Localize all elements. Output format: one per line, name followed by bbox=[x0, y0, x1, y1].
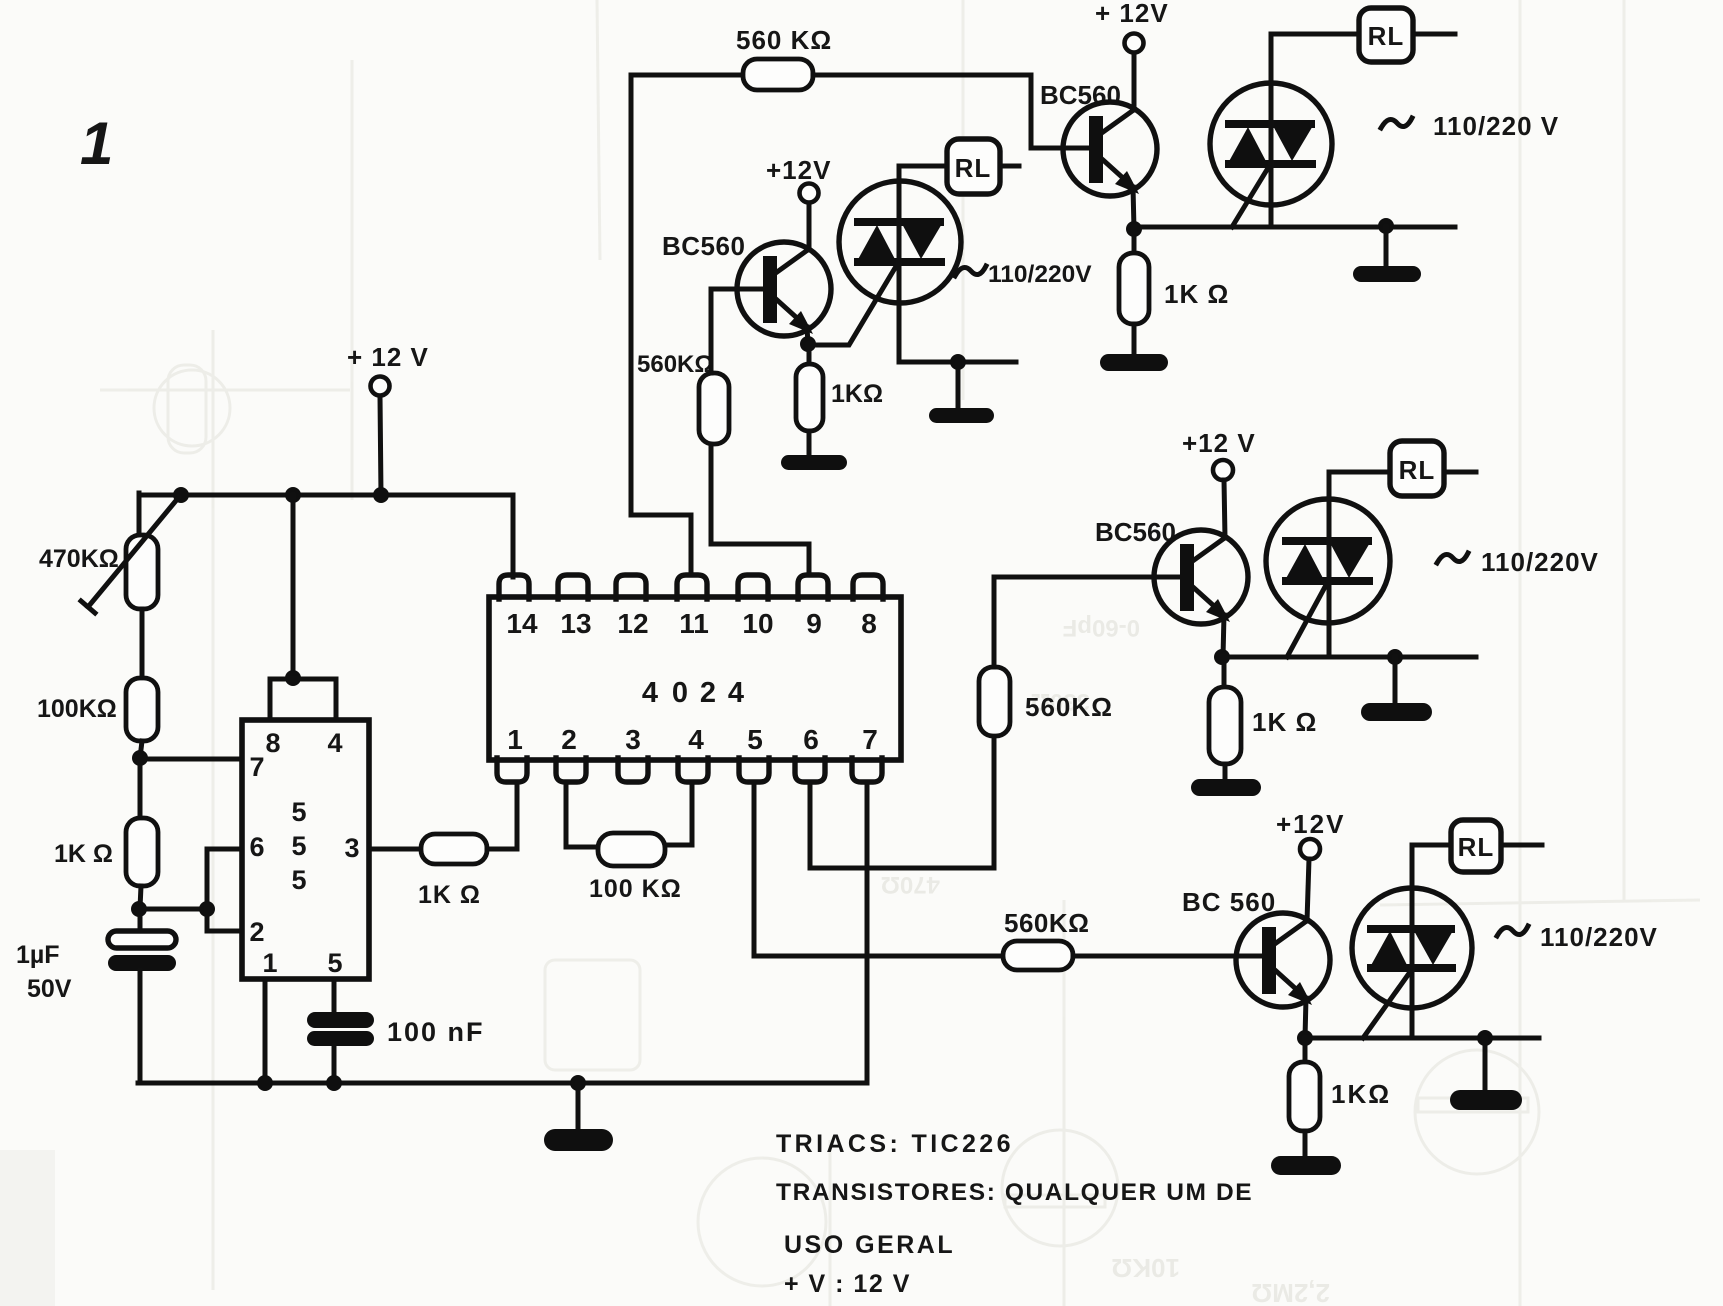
svg-text:4: 4 bbox=[728, 677, 744, 709]
wire triac T1 MT1 run bbox=[899, 360, 1016, 365]
ground (stage 2 emitter) bbox=[1100, 354, 1168, 371]
wire triac T3 gate bbox=[1287, 585, 1326, 657]
label ~ 110/220V (stage 2) bbox=[1381, 118, 1412, 128]
svg-text:2: 2 bbox=[249, 917, 264, 947]
wire Q1 collector to +12V bbox=[807, 203, 812, 250]
wire RL right lead (stage 1) bbox=[1000, 164, 1019, 169]
resistor R 1KΩ (stage 1) bbox=[796, 364, 823, 431]
svg-text:2,2MΩ: 2,2MΩ bbox=[1251, 1278, 1330, 1306]
node E dot bbox=[131, 901, 147, 917]
svg-text:3: 3 bbox=[344, 833, 359, 863]
node G dot (555 pins 8-4 tie) bbox=[285, 670, 301, 686]
wire Q1 emitter to node H bbox=[807, 327, 808, 344]
svg-text:10KΩ: 10KΩ bbox=[1111, 1253, 1180, 1283]
wire RL right lead (stage 3) bbox=[1444, 470, 1476, 475]
wire 555 pin 5 to 100nF bbox=[332, 979, 337, 1013]
svg-text:100 KΩ: 100 KΩ bbox=[589, 875, 682, 903]
wire rail to potentiometer top bbox=[137, 493, 142, 537]
label ~ 110/220V (stage 4) bbox=[1497, 926, 1528, 936]
node O dot (T4 ground) bbox=[1477, 1030, 1493, 1046]
svg-text:1K Ω: 1K Ω bbox=[1164, 279, 1229, 309]
svg-text:110/220V: 110/220V bbox=[988, 261, 1092, 288]
node rail dot A bbox=[173, 487, 189, 503]
svg-text:4: 4 bbox=[688, 724, 704, 755]
wire ground stem (T4) bbox=[1483, 1038, 1488, 1092]
triac T4 bbox=[1352, 888, 1472, 1008]
wire RL right lead (stage 2) bbox=[1413, 32, 1455, 37]
wire Q3 emitter to node L bbox=[1223, 615, 1224, 657]
ground (stage 1 emitter) bbox=[781, 455, 847, 470]
relay RL (stage 4) bbox=[1451, 820, 1501, 872]
resistor 100KΩ (pins 2-4) bbox=[598, 833, 665, 866]
wire ground stem (T2) bbox=[1384, 227, 1389, 268]
svg-text:8: 8 bbox=[265, 728, 280, 758]
capacitor C2 100nF plate 1 bbox=[307, 1012, 374, 1028]
wire triac T2 gate bbox=[1232, 168, 1268, 227]
+12V terminal (left) bbox=[371, 377, 390, 396]
svg-text:4: 4 bbox=[327, 728, 342, 758]
wire 4024 pin 7 to ground rail bbox=[865, 782, 870, 1083]
svg-text:RL: RL bbox=[955, 153, 992, 183]
svg-text:1: 1 bbox=[80, 110, 113, 177]
wire 1K to node E bbox=[140, 886, 141, 908]
wire node D to 1K bbox=[138, 758, 143, 818]
ground (rail) bbox=[544, 1129, 613, 1151]
relay RL (stage 3) bbox=[1390, 441, 1444, 496]
wire node J to 1K R6 bbox=[1132, 229, 1137, 253]
node H dot (Q1 emitter junction) bbox=[800, 336, 816, 352]
svg-text:BC560: BC560 bbox=[1095, 517, 1176, 547]
resistor 1KΩ (555 output) bbox=[421, 834, 487, 864]
svg-text:BC560: BC560 bbox=[1040, 80, 1121, 110]
wire 4024 pin 6 net to 560K R3 bbox=[810, 736, 994, 868]
+12V terminal (Q3) bbox=[1213, 460, 1233, 480]
wire RL right lead (stage 4) bbox=[1501, 843, 1542, 848]
svg-text:110/220V: 110/220V bbox=[1481, 547, 1599, 577]
wire 1K R6 to ground bbox=[1132, 324, 1137, 356]
wire node N to 1K R8 bbox=[1303, 1038, 1308, 1062]
wire node D to 555 pin 7 bbox=[140, 757, 242, 762]
svg-text:50V: 50V bbox=[27, 975, 72, 1003]
svg-text:1K Ω: 1K Ω bbox=[1252, 707, 1317, 737]
svg-text:560 KΩ: 560 KΩ bbox=[736, 25, 832, 55]
svg-text:0-60pF: 0-60pF bbox=[1063, 614, 1140, 641]
node F dot bbox=[199, 901, 215, 917]
svg-text:BC560: BC560 bbox=[662, 231, 745, 261]
wire node E to capacitor bbox=[138, 909, 143, 932]
svg-text:3: 3 bbox=[625, 724, 641, 755]
node N dot (Q4 emitter junction) bbox=[1297, 1030, 1313, 1046]
wire 560K R2 to Q1 base bbox=[711, 289, 764, 373]
wire 560K R4 to Q4 base bbox=[1073, 954, 1263, 959]
wire 1K to 4024 pin 1 bbox=[487, 782, 517, 849]
wire triac T2 vertical MT2-MT1 bbox=[1271, 34, 1359, 227]
svg-text:9: 9 bbox=[806, 608, 822, 639]
transistor Q2 BC560 bbox=[1063, 102, 1157, 196]
svg-text:560KΩ: 560KΩ bbox=[1025, 692, 1113, 722]
ground (T2) bbox=[1353, 266, 1421, 282]
node L dot (Q3 emitter junction) bbox=[1214, 649, 1230, 665]
svg-text:BC 560: BC 560 bbox=[1182, 887, 1276, 917]
svg-text:110/220V: 110/220V bbox=[1540, 922, 1658, 952]
node rail dot C bbox=[373, 487, 389, 503]
svg-text:12: 12 bbox=[617, 608, 648, 639]
wire ground stem (T3) bbox=[1393, 657, 1398, 705]
node ground-hang dot bbox=[570, 1075, 586, 1091]
resistor R 1KΩ (stage 3) bbox=[1209, 687, 1241, 764]
svg-text:2: 2 bbox=[561, 724, 577, 755]
resistor R 560KΩ (stage 4) bbox=[1003, 941, 1073, 970]
triac T1 bbox=[839, 181, 961, 303]
svg-text:TRIACS: TIC226: TRIACS: TIC226 bbox=[776, 1130, 1014, 1158]
ground (T3) bbox=[1361, 703, 1432, 721]
resistor R 1KΩ (stage 4) bbox=[1289, 1062, 1320, 1131]
wire 4024 pin 5 net to 560K R4 bbox=[754, 782, 1003, 956]
wire ground stem (T1) bbox=[956, 362, 961, 410]
resistor 1KΩ (left) bbox=[126, 818, 158, 886]
ground (stage 4 emitter) bbox=[1271, 1156, 1341, 1175]
svg-text:TRANSISTORES: QUALQUER UM DE: TRANSISTORES: QUALQUER UM DE bbox=[776, 1179, 1253, 1206]
svg-text:7: 7 bbox=[249, 752, 264, 782]
label ~ 110/220V (stage 3) bbox=[1437, 553, 1468, 563]
wire node N run to right bbox=[1305, 1036, 1539, 1041]
node I dot (T1 ground) bbox=[950, 354, 966, 370]
svg-text:1: 1 bbox=[507, 724, 523, 755]
node pin1-rail dot bbox=[257, 1075, 273, 1091]
svg-text:10: 10 bbox=[742, 608, 773, 639]
op-amp U1 555 timer body bbox=[242, 720, 369, 979]
node D dot bbox=[132, 750, 148, 766]
svg-text:5: 5 bbox=[747, 724, 763, 755]
svg-text:7: 7 bbox=[862, 724, 878, 755]
triac T3 bbox=[1266, 499, 1390, 623]
svg-text:14: 14 bbox=[506, 608, 538, 639]
svg-text:5: 5 bbox=[291, 797, 306, 827]
wire capacitor to ground rail bbox=[138, 971, 143, 1083]
wire 1K R8 to ground bbox=[1303, 1131, 1308, 1158]
triac T2 bbox=[1210, 83, 1332, 205]
svg-text:1K Ω: 1K Ω bbox=[418, 881, 481, 909]
+12V terminal (Q1) bbox=[800, 184, 819, 203]
transistor Q4 BC560 bbox=[1236, 913, 1330, 1007]
wire Q3 collector to +12V bbox=[1224, 480, 1225, 538]
svg-text:RL: RL bbox=[1458, 832, 1495, 862]
svg-text:+ 12 V: + 12 V bbox=[347, 342, 429, 372]
wire node H to 1K R5 bbox=[807, 344, 812, 364]
wire 4024 pin 2 to 100K bbox=[566, 782, 598, 847]
capacitor 1uF bottom plate bbox=[108, 955, 176, 971]
wire 100K to 4024 pin 4 bbox=[665, 782, 692, 845]
wire 4024 pin 9 net to 560K R2 bbox=[711, 444, 809, 575]
wire pot to 100K bbox=[140, 609, 145, 678]
wire Q4 collector to +12V bbox=[1307, 859, 1309, 921]
capacitor C2 100nF plate 2 bbox=[307, 1031, 374, 1046]
node J dot (Q2 emitter junction) bbox=[1126, 221, 1142, 237]
wire ground rail bbox=[138, 1081, 867, 1086]
resistor 100KΩ (left) bbox=[126, 678, 158, 741]
svg-text:+ 12V: + 12V bbox=[1095, 0, 1169, 28]
svg-text:560KΩ: 560KΩ bbox=[1004, 908, 1090, 938]
4024 bottom pin stubs bbox=[497, 758, 882, 782]
svg-text:USO GERAL: USO GERAL bbox=[784, 1231, 955, 1259]
wire Q2 collector to +12V bbox=[1132, 53, 1137, 110]
wire node L run to right bbox=[1222, 655, 1476, 660]
wire 560K R3 to Q3 base bbox=[994, 577, 1181, 667]
svg-text:0: 0 bbox=[672, 677, 688, 709]
ground (T4) bbox=[1450, 1090, 1522, 1110]
svg-text:RL: RL bbox=[1368, 21, 1405, 51]
wire ground stem (rail) bbox=[576, 1083, 581, 1132]
wire 1K R5 to ground bbox=[807, 431, 812, 457]
svg-text:8: 8 bbox=[861, 608, 877, 639]
svg-text:1KΩ: 1KΩ bbox=[1331, 1079, 1391, 1109]
wire 4024 pin 11 net to 560K R1 bbox=[631, 75, 743, 575]
svg-text:+12 V: +12 V bbox=[1182, 428, 1256, 458]
svg-text:100KΩ: 100KΩ bbox=[37, 695, 117, 723]
svg-text:+ V : 12 V: + V : 12 V bbox=[784, 1270, 911, 1298]
wire Q4 emitter to node N bbox=[1305, 998, 1306, 1038]
wire Q2 emitter to node J bbox=[1133, 187, 1134, 229]
+12V terminal (Q2) bbox=[1125, 34, 1144, 53]
wire 560K R1 to Q2 base bbox=[813, 75, 1090, 148]
potentiometer 470KΩ body bbox=[126, 535, 158, 609]
wire 555 pin 1 to ground rail bbox=[263, 979, 268, 1083]
svg-text:11: 11 bbox=[679, 608, 709, 639]
wire node E to node F bbox=[139, 907, 207, 912]
svg-text:5: 5 bbox=[291, 865, 306, 895]
node 100nF-rail dot bbox=[326, 1075, 342, 1091]
wire 100K to node D bbox=[140, 741, 142, 758]
wire +12V rail (left supply rail to pin 14) bbox=[139, 495, 513, 577]
svg-text:110/220 V: 110/220 V bbox=[1433, 111, 1559, 141]
wire 555 pins 8 and 4 bracket bbox=[270, 679, 336, 720]
ground (stage 3 emitter) bbox=[1191, 779, 1261, 796]
relay RL (stage 2) bbox=[1359, 8, 1413, 62]
wire triac T1 MT2 to RL and MT1 down bbox=[899, 166, 947, 362]
relay RL (stage 1) bbox=[947, 139, 1000, 194]
svg-text:1KΩ: 1KΩ bbox=[831, 380, 883, 408]
svg-text:2: 2 bbox=[700, 677, 716, 709]
svg-text:470KΩ: 470KΩ bbox=[39, 545, 119, 573]
svg-text:470Ω: 470Ω bbox=[881, 871, 940, 898]
transistor Q1 BC560 bbox=[737, 242, 831, 336]
svg-text:+12V: +12V bbox=[1276, 809, 1345, 839]
resistor R 560KΩ (stage 1) bbox=[699, 373, 729, 444]
svg-text:560KΩ: 560KΩ bbox=[637, 351, 714, 378]
potentiometer 470KΩ wiper arrow bbox=[81, 497, 179, 613]
svg-text:1: 1 bbox=[262, 948, 277, 978]
svg-text:6: 6 bbox=[803, 724, 819, 755]
svg-text:5: 5 bbox=[291, 831, 306, 861]
wire 555 pin 3 to 1K bbox=[369, 847, 421, 852]
resistor R 1KΩ (stage 2) bbox=[1119, 253, 1149, 324]
wire node L to 1K R7 bbox=[1222, 657, 1227, 687]
transistor Q3 BC560 bbox=[1154, 530, 1248, 624]
wire node J run to right bbox=[1134, 225, 1455, 230]
counter U2 4024 body bbox=[489, 597, 901, 760]
node K dot (T2 ground) bbox=[1378, 218, 1394, 234]
node M dot (T3 ground) bbox=[1387, 649, 1403, 665]
wire threshold/trigger net to 555 pins 6 and 2 bbox=[207, 849, 242, 931]
svg-text:5: 5 bbox=[327, 948, 342, 978]
capacitor 1uF top plate bbox=[108, 931, 176, 948]
wire node H to triac T1 gate bbox=[808, 263, 898, 345]
label ~ 110/220V (stage 1) bbox=[955, 266, 986, 276]
wire +12V terminal stem bbox=[380, 396, 381, 495]
svg-text:1µF: 1µF bbox=[16, 941, 60, 969]
resistor R 560KΩ (stage 2 top) bbox=[743, 59, 813, 90]
resistor R 560KΩ (stage 3) bbox=[979, 667, 1010, 736]
svg-text:+12V: +12V bbox=[766, 155, 831, 185]
svg-text:1K Ω: 1K Ω bbox=[54, 840, 113, 868]
wire triac T4 gate bbox=[1363, 972, 1410, 1038]
wire triac T3 vertical MT2-MT1 bbox=[1329, 472, 1390, 657]
wire 100nF to ground rail bbox=[332, 1046, 337, 1083]
4024 top pin stubs bbox=[499, 575, 883, 599]
node rail dot B bbox=[285, 487, 301, 503]
+12V terminal (Q4) bbox=[1300, 839, 1320, 859]
svg-text:4: 4 bbox=[642, 677, 658, 709]
svg-text:6: 6 bbox=[249, 832, 264, 862]
ground (T1) bbox=[929, 408, 994, 423]
wire triac T4 vertical MT2-MT1 bbox=[1412, 845, 1451, 1038]
svg-text:RL: RL bbox=[1399, 455, 1436, 485]
wire 1K R7 to ground bbox=[1223, 764, 1228, 781]
svg-text:13: 13 bbox=[560, 608, 591, 639]
wire 555 supply drop from rail bbox=[291, 495, 296, 678]
svg-text:100 nF: 100 nF bbox=[387, 1017, 485, 1047]
